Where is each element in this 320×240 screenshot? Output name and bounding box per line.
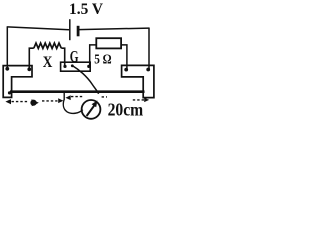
dimension dashed line towards galvanometer bbox=[71, 96, 84, 98]
battery B1 bbox=[70, 19, 78, 40]
wire 5-ohm left lead to terminal C2 bbox=[90, 45, 97, 65]
needle arrowhead bbox=[92, 100, 98, 107]
left copper strip bbox=[3, 66, 32, 98]
dimension arrowhead at jockey (points right) bbox=[58, 98, 63, 103]
galvanometer meter circle bbox=[82, 100, 101, 119]
dimension dashed line mid bbox=[42, 100, 58, 102]
middle copper strip bbox=[61, 62, 91, 71]
dimension arrowhead left (points left) bbox=[5, 99, 11, 104]
bridge wire bbox=[10, 90, 145, 93]
junction blob on wire left end bbox=[8, 91, 11, 94]
galvanometer lead wire from C3 down to bridge bbox=[72, 66, 98, 94]
dimension dash right of galvanometer bbox=[102, 96, 107, 98]
wire left vertical bbox=[6, 26, 8, 68]
wire top-right horizontal bbox=[79, 28, 149, 30]
svg-text:1.5 V: 1.5 V bbox=[69, 1, 103, 18]
terminal C3 (galvanometer tap) bbox=[71, 64, 74, 67]
terminal B1 bbox=[124, 68, 128, 72]
wire from terminal A2 up to resistor X bbox=[29, 48, 34, 69]
galvanometer needle bbox=[87, 105, 95, 116]
terminal C2 bbox=[87, 65, 90, 68]
svg-text:G: G bbox=[70, 47, 79, 66]
dimension dashed line left bbox=[12, 101, 29, 103]
svg-text:5 Ω: 5 Ω bbox=[94, 53, 111, 68]
resistor X zigzag bbox=[34, 43, 62, 48]
svg-text:20cm: 20cm bbox=[108, 100, 144, 120]
wire top-left horizontal bbox=[7, 27, 69, 30]
terminal A2 bbox=[27, 67, 31, 71]
terminal A1 bbox=[5, 67, 9, 71]
terminal C1 bbox=[63, 65, 66, 68]
resistor 5 ohm box bbox=[96, 38, 121, 48]
dimension mid solid arrowhead (points right) bbox=[30, 99, 38, 106]
terminal B2 bbox=[146, 68, 150, 72]
right copper strip bbox=[122, 65, 154, 97]
dimension arrowhead right of jockey (points left) bbox=[65, 95, 70, 100]
wire right vertical bbox=[148, 28, 150, 70]
dimension dashed line with right arrow (20cm) bbox=[133, 99, 145, 101]
jockey contact tick bbox=[63, 93, 65, 100]
svg-text:X: X bbox=[43, 54, 53, 71]
galvanometer loop wire bbox=[63, 99, 82, 113]
wire from resistor X down to terminal C1 bbox=[61, 48, 64, 65]
wire 5-ohm right lead to terminal B1 bbox=[121, 45, 127, 68]
